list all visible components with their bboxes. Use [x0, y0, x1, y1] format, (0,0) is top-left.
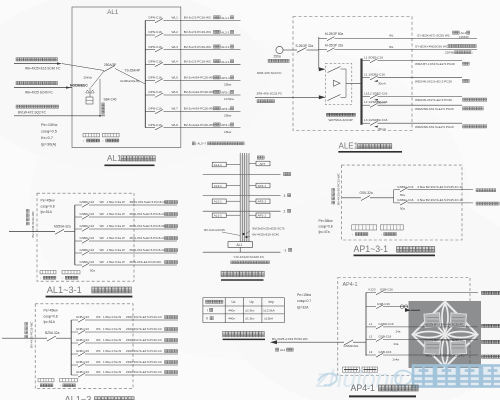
watermark cursive swirl: [318, 371, 412, 386]
panel AL1 enclosure: [72, 7, 181, 148]
svg-text:L2: L2: [369, 335, 373, 339]
svg-text:15kw: 15kw: [224, 130, 232, 134]
dest label: [463, 125, 466, 128]
svg-text:Pe=15kw: Pe=15kw: [297, 293, 312, 297]
svg-text:ZDW-3X2.5+E2.5-PC16-CC: ZDW-3X2.5+E2.5-PC16-CC: [126, 338, 162, 342]
dest: to AL1 box: [453, 31, 456, 34]
svg-text:3x40Ka/3(a-B): 3x40Ka/3(a-B): [120, 79, 139, 83]
svg-text:WL3: WL3: [172, 45, 179, 49]
svg-text:≥15kA: ≥15kA: [264, 317, 274, 321]
branch row 1: [394, 189, 400, 191]
svg-text:Kx=0.7: Kx=0.7: [41, 136, 53, 140]
branch Wb3: [71, 342, 78, 344]
svg-text:WDZ-BYJ-3X2.5+E2.5 PC20: WDZ-BYJ-3X2.5+E2.5 PC20: [415, 62, 455, 66]
svg-text:L1 1SDB2-C16: L1 1SDB2-C16: [364, 73, 385, 77]
svg-text:Wb: Wb: [100, 260, 105, 264]
riser floor line 3F: [203, 195, 281, 197]
wire feeder2 to switch: [91, 71, 104, 87]
svg-text:L1: L1: [369, 322, 373, 326]
svg-text:L2 1/2SDB2-C16: L2 1/2SDB2-C16: [364, 100, 388, 104]
ATS blade lower: [328, 95, 341, 101]
terminal blocks: [40, 271, 56, 274]
meter circle: [276, 46, 283, 53]
svg-text:30mA: 30mA: [378, 127, 386, 131]
svg-text:20kVa: 20kVa: [84, 76, 93, 80]
svg-text:BV-3x4+E4-PC20-WC: BV-3x4+E4-PC20-WC: [184, 123, 215, 127]
svg-text:GNB0-C16: GNB0-C16: [80, 212, 95, 216]
svg-text:GNB0-C16: GNB0-C16: [80, 200, 95, 204]
svg-text:L1 SDB2-C16: L1 SDB2-C16: [364, 56, 383, 60]
riser floor line B1: [203, 251, 281, 253]
dest label: [463, 79, 466, 82]
svg-text:WDZN-BYJ-3X6+E6 SC25 FC: WDZN-BYJ-3X6+E6 SC25 FC: [426, 354, 465, 358]
svg-text:50a: 50a: [400, 193, 405, 197]
svg-text:ZDW-3X2.5+E2.5-PC16-CC: ZDW-3X2.5+E2.5-PC16-CC: [130, 212, 166, 216]
svg-text:Imp: Imp: [269, 300, 275, 304]
branch Wb1: [75, 204, 82, 206]
watermark grey box: [409, 301, 482, 368]
branch circuit WL8: [145, 127, 155, 129]
svg-text:GSK-32a: GSK-32a: [360, 191, 373, 195]
svg-text:BV-4x4x4-SC25: BV-4x4x4-SC25: [204, 228, 225, 232]
svg-text:DPN-C16: DPN-C16: [149, 16, 163, 20]
svg-text:ZRBV-3X2.5+E2.5-PC16-CC: ZRBV-3X2.5+E2.5-PC16-CC: [130, 200, 167, 204]
svg-text:WL6: WL6: [172, 90, 179, 94]
svg-text:≥12.5kA: ≥12.5kA: [263, 308, 275, 312]
dest label: [165, 339, 168, 342]
destination label row 5: [214, 76, 217, 79]
surge protector table: [203, 297, 284, 299]
svg-text:SY-(E3X+E7) SC50 WC: SY-(E3X+E7) SC50 WC: [417, 33, 451, 37]
dest row1: [476, 189, 479, 192]
svg-text:WDZN-BYJ-3X4+E4 SC25 FC: WDZN-BYJ-3X4+E4 SC25 FC: [425, 322, 464, 326]
svg-text:AP3-1: AP3-1: [221, 107, 230, 111]
svg-text:TS-25A/4P: TS-25A/4P: [125, 69, 141, 73]
svg-text:GNB-C16: GNB-C16: [76, 360, 89, 364]
svg-text:GNB0-C16: GNB0-C16: [80, 236, 95, 240]
svg-text:1.5kw 0.6a W: 1.5kw 0.6a W: [103, 338, 121, 342]
dest label: [165, 237, 168, 240]
svg-text:AL1: AL1: [107, 154, 122, 163]
svg-text:GNB0-C16: GNB0-C16: [80, 248, 95, 252]
svg-text:1.5kw 0.6a W: 1.5kw 0.6a W: [107, 212, 125, 216]
ATS blade upper: [328, 67, 341, 73]
riser box AL1-1: [212, 213, 226, 218]
terminal blocks: [343, 367, 360, 372]
dest label: [165, 328, 168, 331]
svg-text:BV-3x2.5-PC16-WC: BV-3x2.5-PC16-WC: [184, 60, 212, 64]
svg-text:AL3-1: AL3-1: [214, 184, 222, 188]
vertical feeder label: [30, 321, 34, 348]
svg-text:WL2: WL2: [172, 30, 179, 34]
svg-text:1.5kw 0.6a W: 1.5kw 0.6a W: [103, 370, 121, 374]
svg-text:1.5kw 0.6a W: 1.5kw 0.6a W: [107, 248, 125, 252]
svg-text:2R8-4X6 SC32 FC: 2R8-4X6 SC32 FC: [257, 92, 284, 96]
dest label: [165, 361, 168, 364]
svg-text:25kw: 25kw: [224, 114, 232, 118]
riser box AP1-1: [256, 213, 270, 218]
svg-text:1.5kw 0.6a W: 1.5kw 0.6a W: [107, 260, 125, 264]
logo diamond outline: [413, 302, 478, 368]
svg-text:1.5kw 0.6a W: 1.5kw 0.6a W: [103, 327, 121, 331]
branch Wb1: [71, 319, 78, 321]
svg-text:ZDW-3X2.5+E2.5-PC16-CC: ZDW-3X2.5+E2.5-PC16-CC: [126, 349, 162, 353]
svg-text:AL4-1: AL4-1: [221, 60, 230, 64]
svg-text:Wb: Wb: [96, 370, 101, 374]
branch C/D/E cable text over watermark: [408, 326, 478, 328]
svg-text:BV-4X35-SC32-WC: BV-4X35-SC32-WC: [31, 210, 35, 237]
svg-text:BV-4X25+1X16 PC50 WC: BV-4X25+1X16 PC50 WC: [272, 337, 309, 341]
panel AL1-3-1 enclosure (dashed): [37, 193, 134, 281]
title underline: [104, 164, 154, 166]
svg-text:ZDW-3X2.5+E2.5-PC16-CC: ZDW-3X2.5+E2.5-PC16-CC: [130, 248, 166, 252]
svg-text:1.5kw 0.6a W: 1.5kw 0.6a W: [103, 349, 121, 353]
svg-text:WH-4X25+E16 SC40 FC: WH-4X25+E16 SC40 FC: [25, 67, 61, 71]
svg-text:WL: WL: [389, 34, 394, 38]
svg-text:Wb: Wb: [100, 200, 105, 204]
svg-text:WL8: WL8: [172, 123, 179, 127]
ATS automatic transfer switch box: [325, 63, 351, 104]
svg-text:WDZ4N-3X2.5+E2.5 PC20: WDZ4N-3X2.5+E2.5 PC20: [415, 79, 452, 83]
svg-text:M-25/3P 50a: M-25/3P 50a: [325, 32, 343, 36]
svg-text:Ijs=32A: Ijs=32A: [297, 306, 309, 310]
svg-text:GNB-C16: GNB-C16: [76, 338, 89, 342]
riser feeder below: [239, 247, 241, 252]
watermark CJK glyphs: [413, 366, 434, 387]
riser box AP3-1: [256, 183, 270, 188]
svg-text:L3 1/2SDB2-C16: L3 1/2SDB2-C16: [364, 118, 388, 122]
AP4-1 terminal block labels (dark): [344, 369, 358, 371]
svg-text:AP4-1: AP4-1: [221, 123, 230, 127]
feeder 3: to AL01: [16, 105, 19, 108]
ALE1 branch L1: [363, 60, 370, 62]
dest labels right of watermark: [482, 324, 485, 327]
svg-text:Pe=45kw: Pe=45kw: [41, 199, 56, 203]
branch Wb6: [71, 374, 78, 376]
svg-text:ALE1: ALE1: [339, 142, 359, 151]
svg-text:cosφ=0.7: cosφ=0.7: [297, 299, 311, 303]
svg-text:WL1: WL1: [172, 16, 179, 20]
svg-text:GNB-C16: GNB-C16: [76, 370, 89, 374]
panel AP1-3-1 enclosure (dashed): [342, 165, 462, 240]
riser box AP2-1: [256, 199, 270, 204]
branch Wb2: [75, 216, 82, 218]
dest label: [165, 213, 168, 216]
svg-text:AL1~3: AL1~3: [65, 395, 92, 400]
ALE1 branch L3: [363, 122, 370, 124]
destination label row 3: [214, 45, 217, 48]
svg-text:GSB-C16: GSB-C16: [379, 350, 392, 354]
branch row 2: [394, 202, 400, 204]
svg-text:Wb: Wb: [100, 248, 105, 252]
destination label row 1: [214, 16, 217, 19]
svg-text:WDZ2N8-3X2.5+E2.5 PC20: WDZ2N8-3X2.5+E2.5 PC20: [415, 107, 454, 111]
svg-text:AP2-1: AP2-1: [221, 91, 230, 95]
svg-text:WL4: WL4: [172, 60, 179, 64]
svg-text:ZDW-3X2.5+E2.5-PC16-CC: ZDW-3X2.5+E2.5-PC16-CC: [126, 370, 162, 374]
wire meter to main breaker: [283, 49, 297, 51]
wire feeder1 to switch: [62, 64, 104, 71]
dashed border segment visible over grey: [469, 340, 471, 368]
vertical feeder label: [31, 210, 35, 237]
svg-text:K123: K123: [369, 288, 376, 292]
svg-text:GNB-C16: GNB-C16: [76, 349, 89, 353]
svg-text:M250A-32a: M250A-32a: [54, 225, 71, 229]
destination label row 4: [214, 60, 217, 63]
svg-text:25kw: 25kw: [224, 83, 232, 87]
svg-text:AL1: AL1: [107, 9, 119, 16]
svg-text:Wb: Wb: [100, 212, 105, 216]
svg-text:AP1-1: AP1-1: [221, 76, 230, 80]
destination label row 8: [214, 123, 217, 126]
note above riser: [192, 142, 195, 145]
svg-text:24a: 24a: [396, 330, 401, 334]
bus AL1 vertical: [144, 20, 146, 127]
svg-text:I: I: [207, 308, 208, 312]
svg-text:DPN-C16: DPN-C16: [149, 60, 163, 64]
terminal blocks: [38, 379, 54, 382]
svg-text:GSB-C16: GSB-C16: [377, 302, 390, 306]
destination label row 2: [214, 30, 217, 33]
svg-text:22KW(: 22KW(: [445, 51, 454, 55]
branch Wb4: [71, 353, 78, 355]
branch circuit WL2: [145, 34, 155, 36]
svg-text:Ijs=51A: Ijs=51A: [40, 210, 52, 214]
svg-text:): ): [472, 51, 473, 55]
svg-text:Wb: Wb: [96, 349, 101, 353]
table header: [206, 300, 209, 303]
svg-text:DPN-C16: DPN-C16: [149, 123, 163, 127]
dest label: [165, 249, 168, 252]
svg-text:≤1.5kv: ≤1.5kv: [245, 317, 255, 321]
svg-text:GNB0-C16: GNB0-C16: [80, 260, 95, 264]
branch B motor blob on box edge: [405, 309, 411, 312]
svg-text:Wb: Wb: [100, 236, 105, 240]
svg-text:NODB/EbC: NODB/EbC: [70, 84, 88, 88]
dest row2: [476, 202, 479, 205]
branch circuit WL6: [145, 94, 155, 96]
ALE1 branch L1: [363, 77, 370, 79]
branch circuit WL1: [145, 19, 155, 21]
svg-text:1.5kw 0.6a W: 1.5kw 0.6a W: [107, 224, 125, 228]
dest label: [165, 225, 168, 228]
svg-text:AP4-1: AP4-1: [351, 383, 376, 393]
svg-text:AP4-1: AP4-1: [343, 282, 358, 288]
svg-text::AL3~7: :AL3~7: [197, 142, 207, 146]
svg-text:440v: 440v: [228, 317, 235, 321]
recloser branch SB4-C40: [99, 79, 101, 116]
svg-text:AL1~3-1: AL1~3-1: [47, 285, 82, 295]
svg-text:ZDW-3X2.5+E2.5-PC16-WC: ZDW-3X2.5+E2.5-PC16-WC: [130, 224, 167, 228]
svg-text:GSB-C16: GSB-C16: [379, 335, 392, 339]
title surge protector params: [223, 331, 228, 336]
logo plates: [424, 313, 467, 355]
svg-text:GSM0-C16: GSM0-C16: [379, 322, 394, 326]
svg-text:AL1: AL1: [237, 243, 243, 247]
svg-text:3: 3: [284, 194, 286, 198]
svg-text:AP1-1: AP1-1: [258, 214, 267, 218]
svg-text:GNB0-C16: GNB0-C16: [80, 224, 95, 228]
node junction: [318, 37, 320, 69]
svg-text:ZDW-3X2.5+E2.5-PC16-CC: ZDW-3X2.5+E2.5-PC16-CC: [126, 360, 162, 364]
svg-text:Wb: Wb: [96, 327, 101, 331]
riser floor line 2F: [203, 210, 281, 212]
svg-text:AP2-1: AP2-1: [258, 200, 267, 204]
bus: [70, 320, 72, 375]
svg-text:WATSNA-32U/4P: WATSNA-32U/4P: [329, 118, 353, 122]
elevator label: [257, 156, 260, 159]
vertical label 自动重合闸器: [102, 103, 105, 106]
title riser diagram: [221, 271, 227, 277]
svg-text:Pe=10Kw: Pe=10Kw: [41, 123, 58, 127]
svg-text:AP7: AP7: [260, 162, 266, 166]
svg-text:AL1-1: AL1-1: [221, 16, 230, 20]
branch Wb3: [75, 228, 82, 230]
branch circuit WL3: [145, 49, 155, 51]
feeder 1: standby source: [16, 58, 19, 61]
logo leaves: [415, 304, 475, 365]
panel AP4-1 enclosure (dashed): [338, 278, 470, 376]
svg-text:DPN-C16: DPN-C16: [149, 45, 163, 49]
svg-text:Ijs=47a: Ijs=47a: [318, 230, 329, 234]
dark label at box edge: [411, 305, 414, 308]
svg-text:AL2-1: AL2-1: [214, 200, 222, 204]
svg-text:GSB2a-C16: GSB2a-C16: [397, 185, 414, 189]
svg-text:0.5kw BV-3X2.5+E2.5-PC25-FC 40: 0.5kw BV-3X2.5+E2.5-PC25-FC 40: [418, 185, 464, 189]
riser box AP7 (elevator): [256, 161, 270, 166]
dest label: [165, 350, 168, 353]
feeder 2: normal source: [16, 81, 19, 84]
destination label row 6: [214, 90, 217, 93]
svg-text:WL: WL: [389, 45, 394, 49]
svg-text:BZ5A-32a: BZ5A-32a: [45, 331, 60, 335]
svg-text:L1/L2 SDB2-C16: L1/L2 SDB2-C16: [364, 91, 388, 95]
svg-text:cosφ=0.5: cosφ=0.5: [41, 130, 57, 134]
svg-text:AP3-1: AP3-1: [258, 184, 267, 188]
wire to ATS input: [319, 67, 326, 71]
svg-text:BV-4X25+E16-SC40: BV-4X25+E16-SC40: [253, 232, 280, 236]
svg-text:1.5kw 0.6a W: 1.5kw 0.6a W: [103, 315, 121, 319]
svg-text:1.5kw 0.6a W: 1.5kw 0.6a W: [107, 236, 125, 240]
branch Wb6: [75, 264, 82, 266]
branch Wb5: [71, 364, 78, 366]
dest label: [463, 62, 466, 65]
svg-text:ZDW-3X2.5+E2.5-PC16-CC: ZDW-3X2.5+E2.5-PC16-CC: [126, 315, 162, 319]
vertical feeder label: [337, 172, 341, 205]
svg-text:BV(3x50+25)+E25-SC75: BV(3x50+25)+E25-SC75: [253, 226, 285, 230]
panel ALE1 enclosure (dashed): [293, 17, 412, 131]
svg-text:GNB-C16: GNB-C16: [76, 327, 89, 331]
svg-text:Wb: Wb: [96, 338, 101, 342]
ALE1 distribution bus: [360, 59, 362, 125]
svg-text:Wb: Wb: [96, 360, 101, 364]
svg-text:BV-3x4+E4-PC20-WC: BV-3x4+E4-PC20-WC: [184, 76, 215, 80]
branch circuit WL7: [145, 110, 155, 112]
dest label: [165, 316, 168, 319]
dest label: [165, 261, 168, 264]
svg-text:GSB-C16: GSB-C16: [380, 288, 393, 292]
svg-text:BV-4X35-PC32-WC: BV-4X35-PC32-WC: [30, 321, 34, 348]
svg-text:cosφ=0.8: cosφ=0.8: [319, 224, 333, 228]
svg-text:2n4a: 2n4a: [393, 358, 400, 362]
branch circuit WL4: [145, 63, 155, 65]
destination label row 7: [214, 107, 217, 110]
svg-text:250A/3P: 250A/3P: [104, 63, 116, 67]
riser box AL2-1: [212, 199, 226, 204]
svg-text:AL1-1: AL1-1: [214, 214, 222, 218]
ATS label: [327, 113, 330, 116]
plate tiny text: [427, 318, 465, 349]
svg-text:BV-3x2.5-PC16-WC: BV-3x2.5-PC16-WC: [184, 30, 212, 34]
svg-text:BV-3x4+E4-PC20-WC: BV-3x4+E4-PC20-WC: [184, 107, 215, 111]
svg-text:WH-4X25 SC40 FC: WH-4X25 SC40 FC: [25, 91, 54, 95]
svg-text:AL2-1: AL2-1: [221, 31, 230, 35]
svg-text:Uc: Uc: [232, 300, 236, 304]
svg-text:AP1~3-1: AP1~3-1: [354, 244, 389, 254]
svg-text:WDZ4N-3X2.5+E2.5 PC20: WDZ4N-3X2.5+E2.5 PC20: [415, 98, 452, 102]
svg-text:50a: 50a: [90, 269, 95, 273]
svg-text:cosφ=0.8: cosφ=0.8: [44, 314, 58, 318]
svg-text:BV-4X10+E6-PC32-WC: BV-4X10+E6-PC32-WC: [337, 172, 341, 205]
ATS symbol triangle: [334, 80, 341, 86]
svg-text:24a: 24a: [394, 342, 399, 346]
svg-text:GSM4/32a: GSM4/32a: [344, 344, 359, 348]
svg-text:YJV-4X120 SC100 FC: YJV-4X120 SC100 FC: [233, 255, 265, 259]
svg-text:AL1: AL1: [280, 348, 286, 352]
svg-text:SB4-C40: SB4-C40: [104, 98, 117, 102]
svg-text:Pe=45kw: Pe=45kw: [44, 309, 59, 313]
svg-text:BVLW-4X1 SQ2 FC: BVLW-4X1 SQ2 FC: [18, 111, 47, 115]
riser floor line roof: [203, 174, 281, 176]
branch Wb5: [75, 252, 82, 254]
dest label: [165, 371, 168, 374]
floor label roof: [284, 172, 287, 175]
svg-text:SY-(E3X+4W)SC66 WC: SY-(E3X+4W)SC66 WC: [415, 44, 449, 48]
svg-text:30mA: 30mA: [378, 82, 386, 86]
svg-text:WL5: WL5: [172, 76, 179, 80]
riser main box AL1: [228, 242, 253, 248]
svg-text:≤2.5kv: ≤2.5kv: [245, 308, 255, 312]
svg-text:1.5kw 0.6a W: 1.5kw 0.6a W: [103, 360, 121, 364]
svg-text:DPN-C16: DPN-C16: [149, 76, 163, 80]
terminal blocks AL1: [83, 133, 100, 137]
svg-text:2: 2: [284, 210, 286, 214]
svg-text:BV-3x4+E4-PC20-WC: BV-3x4+E4-PC20-WC: [184, 90, 215, 94]
svg-text:WDZN-BYJ-3X4+E4 SC25 FC: WDZN-BYJ-3X4+E4 SC25 FC: [425, 338, 464, 342]
svg-text:ZDW-3X4+E4-PC20-WC: ZDW-3X4+E4-PC20-WC: [130, 260, 162, 264]
svg-text:Wb: Wb: [100, 224, 105, 228]
ALE1 branch L2: [363, 104, 370, 106]
svg-text:AL4-1: AL4-1: [214, 163, 222, 167]
svg-text:AL3-1: AL3-1: [221, 45, 230, 49]
svg-text:ZDW-3X2.5+E2.5-PC16-CC: ZDW-3X2.5+E2.5-PC16-CC: [130, 236, 166, 240]
svg-text:Pe=35kw: Pe=35kw: [319, 219, 334, 223]
svg-text:WDZ2N8-3X2.5+E2.5 PC20: WDZ2N8-3X2.5+E2.5 PC20: [415, 125, 454, 129]
svg-text:BV-3x2.5-PC16-WC: BV-3x2.5-PC16-WC: [184, 16, 212, 20]
svg-text:BV-3x2.5-PC16-WC: BV-3x2.5-PC16-WC: [184, 45, 212, 49]
svg-text:Wb: Wb: [96, 315, 101, 319]
svg-text:1.5kw 0.6a W: 1.5kw 0.6a W: [107, 200, 125, 204]
svg-text:ZDW-3X2.5+E2.5-PC16-CC: ZDW-3X2.5+E2.5-PC16-CC: [126, 327, 162, 331]
branch circuit WL5: [145, 80, 155, 82]
dest A: [482, 291, 485, 294]
dest label: [463, 107, 466, 110]
svg-text:S-25/3P 32a: S-25/3P 32a: [296, 44, 314, 48]
svg-text:250a: 250a: [274, 55, 281, 59]
svg-text:Ijs=30(A): Ijs=30(A): [41, 143, 57, 147]
svg-text:cosφ=0.8: cosφ=0.8: [41, 204, 55, 208]
ATS output wire: [346, 83, 362, 85]
